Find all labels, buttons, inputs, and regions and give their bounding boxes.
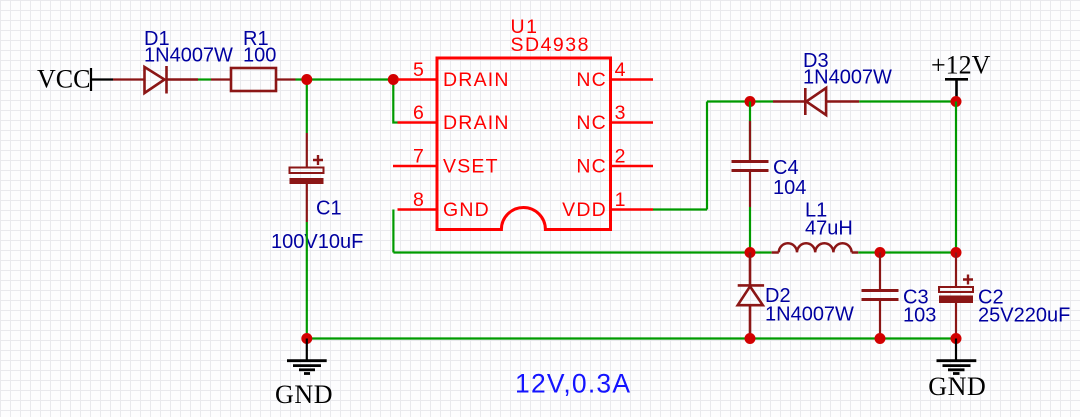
op-amp U1 body xyxy=(437,58,611,230)
svg-text:1: 1 xyxy=(615,189,627,211)
pin 7 stub xyxy=(393,165,437,167)
svg-text:DRAIN: DRAIN xyxy=(443,69,510,91)
wire: bottom GND rail xyxy=(307,337,956,339)
wire: L1 right to C2 node xyxy=(880,251,956,253)
svg-text:100V10uF: 100V10uF xyxy=(271,231,363,253)
port VCC bar xyxy=(90,68,92,91)
svg-text:12V,0.3A: 12V,0.3A xyxy=(515,369,631,399)
svg-text:100: 100 xyxy=(243,45,276,67)
wire: VCC port lead (black) xyxy=(91,78,113,80)
capacitor C1 (electrolytic) xyxy=(290,133,324,222)
ground symbol left xyxy=(287,339,327,374)
svg-text:GND: GND xyxy=(928,372,986,401)
wire: D3 to +12V xyxy=(859,100,956,102)
svg-text:47uH: 47uH xyxy=(805,218,853,240)
node junction dot A xyxy=(301,74,312,85)
svg-text:6: 6 xyxy=(413,102,425,124)
svg-text:NC: NC xyxy=(576,156,607,178)
svg-text:1N4007W: 1N4007W xyxy=(803,67,892,89)
svg-text:5: 5 xyxy=(413,59,425,81)
wire: pin1 VDD to riser xyxy=(653,208,707,210)
svg-text:VDD: VDD xyxy=(562,199,607,221)
svg-text:8: 8 xyxy=(413,189,425,211)
node junction L1 left xyxy=(745,247,756,258)
svg-text:GND: GND xyxy=(443,199,490,221)
diode D1 xyxy=(145,66,199,94)
pin 2 stub xyxy=(611,165,654,167)
svg-text:1N4007W: 1N4007W xyxy=(765,304,854,326)
node junction C2 top xyxy=(951,247,962,258)
node junction C3 top xyxy=(875,247,886,258)
capacitor C4 xyxy=(732,102,769,253)
pin 5 stub xyxy=(398,78,438,80)
svg-text:+12V: +12V xyxy=(931,51,991,80)
wire: R1 right lead xyxy=(276,78,296,80)
svg-text:4: 4 xyxy=(615,59,627,81)
svg-text:103: 103 xyxy=(903,305,936,327)
wire: C1 bottom to GND rail xyxy=(306,222,308,339)
pin 6 stub xyxy=(398,121,438,123)
node junction dot B xyxy=(388,74,399,85)
pin 1 stub xyxy=(611,208,654,210)
svg-text:GND: GND xyxy=(275,380,333,409)
svg-text:C1: C1 xyxy=(316,198,342,220)
wire: VDD riser up xyxy=(706,102,708,210)
svg-text:VCC: VCC xyxy=(37,65,90,94)
svg-text:C4: C4 xyxy=(773,157,799,179)
wire: D1 to R1 (green piece) xyxy=(198,78,211,80)
node junction GND left xyxy=(301,333,312,344)
svg-text:NC: NC xyxy=(576,69,607,91)
wire: R1 to pin5 junction (green) xyxy=(296,78,398,80)
svg-text:3: 3 xyxy=(615,102,627,124)
svg-text:DRAIN: DRAIN xyxy=(443,112,510,134)
node junction +12V xyxy=(951,96,962,107)
wire: pin8 GND down to mid rail xyxy=(392,210,394,253)
wire: R1 left lead xyxy=(211,78,231,80)
svg-text:NC: NC xyxy=(576,112,607,134)
node junction C2 bottom xyxy=(951,333,962,344)
ground symbol right xyxy=(937,339,977,374)
capacitor C2 (electrolytic) xyxy=(939,253,973,339)
svg-text:25V220uF: 25V220uF xyxy=(978,305,1070,327)
wire: VCC to D1 (maroon) xyxy=(113,78,145,80)
wire: top right rail to D3 xyxy=(707,100,773,102)
diode D3 xyxy=(773,88,859,115)
pin 8 stub xyxy=(398,208,438,210)
svg-text:VSET: VSET xyxy=(443,156,499,178)
power +12V symbol xyxy=(945,79,968,101)
svg-text:2: 2 xyxy=(615,146,627,168)
wire: +12V rail down to C2 node xyxy=(955,102,957,253)
pin 4 stub xyxy=(611,78,654,80)
node junction C3 bottom xyxy=(875,333,886,344)
svg-text:104: 104 xyxy=(773,177,806,199)
node junction C4 top xyxy=(745,96,756,107)
resistor R1 xyxy=(231,68,276,91)
wire: junction down to pin6 xyxy=(393,80,397,123)
wire: junction to C1 top (green) xyxy=(306,80,308,134)
wire: mid rail GND/L1 xyxy=(393,251,750,253)
capacitor C3 xyxy=(862,253,899,339)
diode D2 xyxy=(738,253,764,339)
inductor L1 xyxy=(750,243,880,252)
svg-text:1N4007W: 1N4007W xyxy=(144,45,233,67)
node junction D2 bottom xyxy=(745,333,756,344)
svg-text:7: 7 xyxy=(413,146,425,168)
pin 3 stub xyxy=(611,121,654,123)
svg-text:SD4938: SD4938 xyxy=(511,34,590,56)
